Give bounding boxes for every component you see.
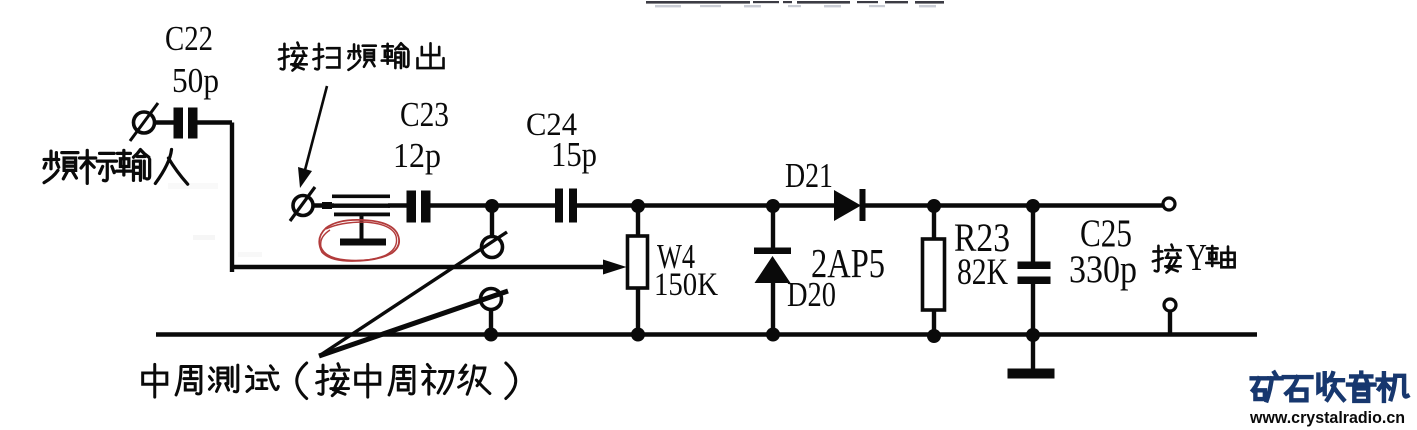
- red annotation ellipse: [319, 220, 399, 261]
- wire W4 top leg: [636, 206, 640, 237]
- terminal T3 (IF test upper): [482, 237, 503, 258]
- terminal T2 (sweep output): [290, 187, 315, 221]
- annotation pointer line to T4 (thick): [319, 291, 508, 356]
- svg-text:82K: 82K: [957, 252, 1008, 293]
- diode D21 (series, cathode right): [834, 189, 866, 221]
- label: jie Y zhou2 (to Y axis): [1153, 245, 1235, 273]
- annotation arrow to T2: [298, 86, 327, 188]
- cropped text remnants top edge: [646, 1, 944, 4]
- svg-text:150K: 150K: [654, 267, 718, 303]
- wire R23 bottom leg: [932, 310, 936, 335]
- junction node B (W4 top): [631, 199, 645, 213]
- arrowhead of W4 wiper: [603, 260, 627, 275]
- wire lower-right terminal stem: [1168, 311, 1172, 335]
- capacitor C25: [1018, 262, 1051, 285]
- label: jie sao pin shu chu (sweep output): [279, 43, 444, 71]
- wire C25 top leg: [1031, 206, 1035, 263]
- terminal Y-axis bottom (open): [1164, 299, 1176, 311]
- junction node D (R23 top): [927, 199, 941, 213]
- wire C22 to corner: [197, 120, 232, 124]
- wire trimmer to C23: [388, 203, 408, 207]
- wire C23 to C24 (through node A): [430, 203, 556, 207]
- svg-text:www.crystalradio.cn: www.crystalradio.cn: [1249, 409, 1405, 427]
- junction node E (C25 top): [1026, 199, 1040, 213]
- terminal Y-axis top (open): [1163, 198, 1175, 210]
- potentiometer W4 body: [628, 236, 648, 288]
- wire wiper feed horizontal: [232, 265, 608, 269]
- svg-text:C23: C23: [400, 95, 449, 134]
- wire C22 input left segment: [154, 120, 174, 124]
- wire D20 bottom leg: [771, 282, 775, 335]
- svg-text:Y: Y: [1186, 237, 1207, 279]
- capacitor C23: [407, 191, 431, 223]
- annotation pointer line to T3 (thin): [322, 232, 507, 354]
- svg-text:12p: 12p: [393, 136, 441, 175]
- wire ground rail: [156, 332, 1257, 336]
- wire ground stub below C25: [1031, 335, 1035, 370]
- svg-text:C22: C22: [165, 19, 213, 58]
- node: signal rail wires: [154, 123, 1257, 371]
- wire D21 cathode to output terminal: [864, 203, 1163, 207]
- wire node A down to terminal T3: [490, 206, 494, 238]
- label: zhong zhou ce shi ( jie zhong zhou chu ji ) bottom caption: [143, 363, 516, 399]
- ground symbol below C25: [1008, 369, 1055, 379]
- wire left vertical drop: [230, 123, 234, 273]
- wire C24 to D21 anode (through node B): [577, 203, 836, 207]
- wire terminal T4 down to ground rail: [489, 308, 493, 335]
- capacitor C24: [555, 189, 577, 223]
- resistor R23 body: [923, 239, 945, 310]
- junction node C (D20/D21): [766, 199, 780, 213]
- svg-text:D21: D21: [785, 156, 833, 195]
- wire R23 top leg: [932, 206, 936, 240]
- terminal T4 (IF test lower): [481, 289, 502, 310]
- junction W4 bottom: [631, 328, 645, 342]
- capacitor C22: [174, 108, 198, 139]
- watermark logo: kuang shi shou yin ji: [1252, 373, 1408, 401]
- diode D20 (vertical, cathode up): [754, 248, 791, 284]
- wire C25 bottom leg: [1031, 283, 1035, 335]
- junction D20 bottom: [766, 328, 780, 342]
- svg-text:15p: 15p: [551, 135, 597, 174]
- svg-text:330p: 330p: [1069, 248, 1137, 291]
- junction node A (after C23): [485, 199, 499, 213]
- terminal T1 (marker input): [130, 103, 158, 141]
- label: pin biao shu ru (marker input): [44, 150, 188, 185]
- wire W4 bottom leg: [636, 288, 640, 335]
- svg-text:50p: 50p: [172, 61, 219, 100]
- wire terminal T2 to trimmer: [313, 203, 334, 207]
- faint scan smudges: [193, 235, 215, 240]
- trimmer capacitor plates (feed-through): [322, 195, 390, 217]
- svg-text:D20: D20: [787, 275, 836, 314]
- junction R23 bottom: [927, 329, 941, 343]
- junction T4 at ground rail: [484, 328, 498, 342]
- wire D20 top leg: [771, 206, 775, 249]
- ground (circled in red): [340, 216, 386, 246]
- junction C25 bottom: [1026, 328, 1040, 342]
